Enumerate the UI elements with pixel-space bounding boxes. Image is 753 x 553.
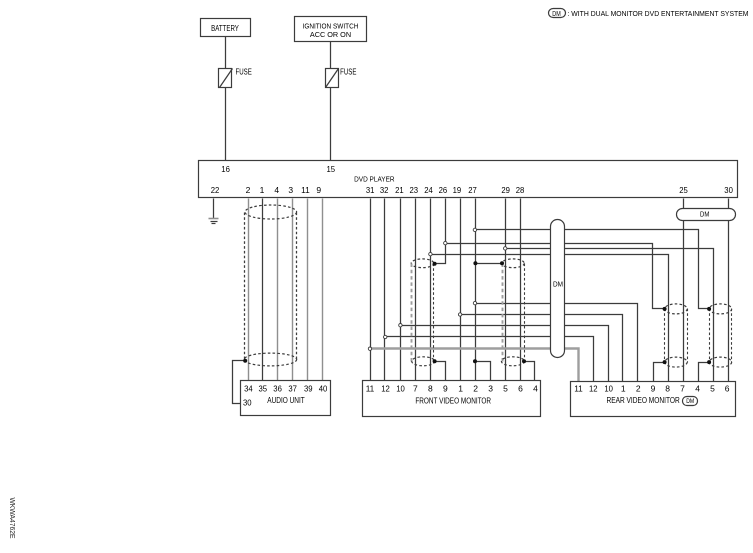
svg-text:9: 9 <box>316 185 321 195</box>
svg-text:34: 34 <box>244 383 253 393</box>
svg-text:6: 6 <box>725 383 730 393</box>
svg-text:BATTERY: BATTERY <box>211 24 239 33</box>
svg-text:26: 26 <box>439 185 448 195</box>
svg-text:4: 4 <box>274 185 279 195</box>
svg-text:21: 21 <box>395 185 404 195</box>
svg-text:5: 5 <box>710 383 715 393</box>
svg-text:23: 23 <box>410 185 419 195</box>
svg-text:31: 31 <box>366 185 375 195</box>
svg-text:AUDIO UNIT: AUDIO UNIT <box>267 395 305 405</box>
svg-text:4: 4 <box>533 383 538 393</box>
svg-text:10: 10 <box>396 383 405 393</box>
svg-text:12: 12 <box>381 383 390 393</box>
svg-text:FUSE: FUSE <box>340 67 356 76</box>
svg-text:35: 35 <box>259 383 268 393</box>
svg-text:24: 24 <box>424 185 433 195</box>
svg-text:25: 25 <box>679 185 688 195</box>
svg-text:1: 1 <box>260 185 265 195</box>
svg-text:11: 11 <box>366 383 375 393</box>
svg-text:15: 15 <box>327 164 336 174</box>
svg-text:ACC OR ON: ACC OR ON <box>310 30 351 39</box>
svg-text:36: 36 <box>273 383 282 393</box>
svg-text:11: 11 <box>574 383 583 393</box>
svg-text:2: 2 <box>473 383 478 393</box>
svg-text:5: 5 <box>503 383 508 393</box>
svg-text:7: 7 <box>680 383 685 393</box>
svg-text:1: 1 <box>621 383 626 393</box>
svg-text:6: 6 <box>518 383 523 393</box>
svg-text:DM: DM <box>700 211 709 218</box>
svg-text:27: 27 <box>468 185 477 195</box>
svg-text:DM: DM <box>686 398 694 405</box>
svg-text:12: 12 <box>589 383 598 393</box>
svg-text:22: 22 <box>211 185 220 195</box>
svg-text:3: 3 <box>488 383 493 393</box>
svg-text:10: 10 <box>604 383 613 393</box>
svg-text:1: 1 <box>458 383 463 393</box>
svg-text:FRONT VIDEO MONITOR: FRONT VIDEO MONITOR <box>415 395 491 405</box>
svg-text:8: 8 <box>428 383 433 393</box>
svg-text:37: 37 <box>288 383 297 393</box>
svg-text:40: 40 <box>319 383 328 393</box>
svg-text:30: 30 <box>724 185 733 195</box>
svg-text:2: 2 <box>636 383 641 393</box>
svg-text:11: 11 <box>301 185 310 195</box>
svg-text:REAR VIDEO MONITOR: REAR VIDEO MONITOR <box>606 395 679 405</box>
svg-text:2: 2 <box>246 185 251 195</box>
svg-text:9: 9 <box>443 383 448 393</box>
svg-text:FUSE: FUSE <box>236 67 252 76</box>
svg-text:3: 3 <box>288 185 293 195</box>
svg-text:4: 4 <box>695 383 700 393</box>
svg-text:7: 7 <box>413 383 418 393</box>
svg-text:DM: DM <box>553 281 563 288</box>
svg-text:DM: DM <box>552 11 561 18</box>
svg-text:9: 9 <box>651 383 656 393</box>
svg-text:16: 16 <box>221 164 230 174</box>
svg-text:32: 32 <box>380 185 389 195</box>
svg-text:DVD PLAYER: DVD PLAYER <box>354 174 395 183</box>
svg-text:: WITH DUAL MONITOR DVD ENTERT: : WITH DUAL MONITOR DVD ENTERTAINMENT SY… <box>568 9 749 18</box>
svg-text:28: 28 <box>516 185 525 195</box>
svg-text:30: 30 <box>243 397 252 407</box>
svg-text:8: 8 <box>665 383 670 393</box>
svg-text:29: 29 <box>501 185 510 195</box>
svg-text:19: 19 <box>453 185 462 195</box>
svg-text:WKWA4762E: WKWA4762E <box>8 498 15 539</box>
svg-text:39: 39 <box>304 383 313 393</box>
